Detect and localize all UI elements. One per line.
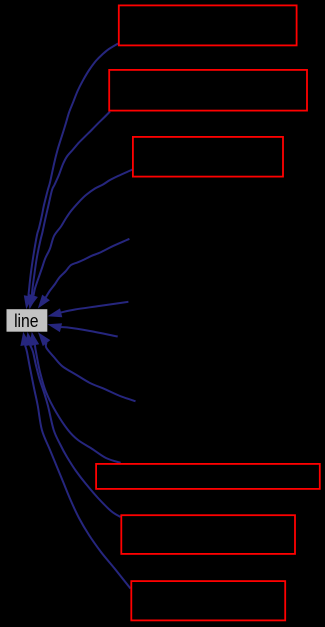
caller box 8	[121, 515, 295, 554]
caller box 1	[119, 5, 297, 45]
arrowhead E10 at node line	[20, 332, 30, 346]
wire E2 caller2 to line	[32, 112, 110, 297]
arrowhead E1 at node line	[24, 295, 33, 309]
wire E6 hidden caller to line	[61, 327, 118, 336]
node line (current function)	[7, 309, 48, 332]
arrowhead E4 at node line	[38, 295, 50, 309]
caller box 9	[131, 581, 285, 620]
arrowhead E9 at node line	[25, 332, 35, 346]
wire E8 caller7 to line	[35, 345, 121, 463]
arrowhead E3 at node line	[29, 294, 38, 308]
arrowhead E8 at node line	[29, 332, 39, 346]
arrowhead E2 at node line	[28, 295, 37, 309]
wire E5 hidden caller to line	[61, 302, 129, 313]
wire E4 hidden caller to line	[46, 239, 130, 298]
caller box 3	[133, 137, 283, 177]
wire E9 caller8 to line	[30, 345, 120, 517]
wire E1 caller1 to line	[28, 44, 118, 296]
wire E3 caller3 to line	[34, 170, 133, 296]
caller box 2	[109, 70, 307, 111]
caller box 7	[96, 464, 320, 489]
svg-text:line: line	[14, 310, 38, 332]
arrowhead E7 at node line	[38, 332, 50, 346]
arrowhead E5 at node line	[48, 308, 63, 317]
arrowhead E6 at node line	[47, 323, 62, 332]
wire E7 hidden caller to line	[46, 343, 136, 402]
wire E10 caller9 to line	[25, 345, 131, 588]
